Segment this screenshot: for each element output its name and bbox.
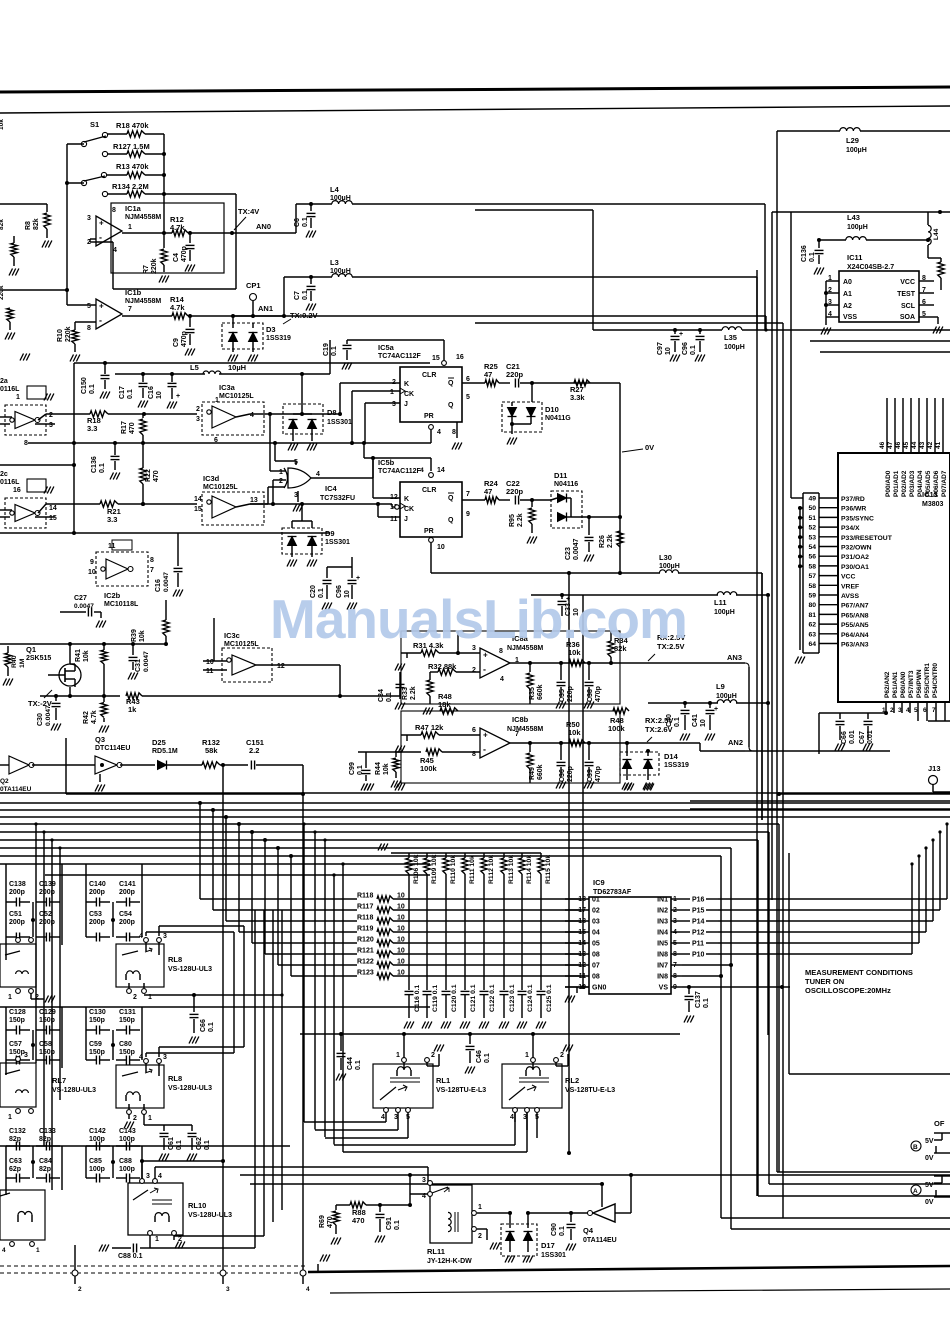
svg-text:P31/OA2: P31/OA2 [841, 554, 869, 561]
svg-text:MC10118L: MC10118L [104, 601, 139, 608]
svg-text:0V: 0V [645, 443, 654, 452]
svg-text:52: 52 [808, 525, 816, 532]
svg-text:TC7S32FU: TC7S32FU [320, 495, 355, 502]
svg-text:C88: C88 [119, 1158, 132, 1165]
svg-text:03: 03 [592, 919, 600, 926]
svg-text:C46: C46 [476, 1050, 483, 1063]
svg-text:+: + [356, 575, 360, 582]
svg-text:K: K [404, 381, 409, 388]
relay RL11 [430, 1185, 472, 1243]
svg-text:470: 470 [352, 1216, 365, 1225]
svg-text:1: 1 [36, 1247, 40, 1254]
svg-text:VS-128TU-E-L3: VS-128TU-E-L3 [565, 1087, 615, 1094]
svg-text:150p: 150p [9, 1049, 25, 1056]
svg-text:C119 0.1: C119 0.1 [432, 985, 439, 1012]
svg-text:150p: 150p [39, 1017, 55, 1024]
wire AN0 right down [764, 204, 766, 330]
svg-text:B: B [913, 1144, 918, 1151]
svg-text:10: 10 [665, 347, 672, 355]
svg-text:80: 80 [808, 602, 816, 609]
diode pair D14 [620, 752, 659, 775]
svg-text:C136: C136 [801, 245, 808, 262]
svg-text:200p: 200p [9, 919, 25, 926]
vertical bus right [776, 131, 778, 1172]
svg-text:IC5b: IC5b [378, 458, 395, 467]
svg-text:0.01: 0.01 [849, 730, 856, 744]
svg-text:0.1: 0.1 [127, 389, 134, 399]
wire AN2 right [753, 750, 890, 752]
svg-text:1SS301: 1SS301 [541, 1252, 566, 1259]
svg-text:C129: C129 [39, 1009, 56, 1016]
svg-text:C67: C67 [859, 731, 866, 744]
svg-text:C96: C96 [682, 342, 689, 355]
svg-text:L29: L29 [846, 136, 859, 145]
svg-text:7: 7 [466, 491, 470, 498]
svg-text:RL8: RL8 [168, 955, 182, 964]
svg-text:GN0: GN0 [592, 985, 607, 992]
svg-text:470: 470 [129, 422, 136, 434]
svg-text:0.1: 0.1 [331, 346, 338, 356]
wire AN1 right [233, 315, 766, 317]
svg-text:L30: L30 [659, 553, 672, 562]
wire IC8a out [510, 662, 620, 664]
svg-text:100µH: 100µH [714, 609, 735, 616]
transistor Q4 [593, 1204, 615, 1222]
svg-text:57: 57 [808, 573, 816, 580]
svg-text:0.1: 0.1 [386, 692, 393, 702]
svg-text:0.1: 0.1 [355, 1060, 362, 1070]
wire IC5b CK [391, 504, 393, 507]
svg-text:R111 10k: R111 10k [469, 855, 476, 884]
svg-text:4: 4 [250, 412, 254, 419]
svg-text:3.3: 3.3 [107, 515, 117, 524]
svg-text:1: 1 [155, 1236, 159, 1243]
svg-text:R17: R17 [121, 421, 128, 434]
wire IC5a K [340, 382, 400, 384]
svg-text:P57/INT3: P57/INT3 [908, 670, 915, 698]
svg-text:VS-128U-UL3: VS-128U-UL3 [168, 1085, 212, 1092]
svg-text:7: 7 [150, 567, 154, 574]
svg-text:P37/RD: P37/RD [841, 496, 865, 503]
diode pair D8 [283, 404, 323, 434]
svg-text:P65/AN8: P65/AN8 [841, 612, 869, 619]
or-gate IC4 [288, 468, 311, 488]
svg-text:1: 1 [8, 1114, 12, 1121]
svg-text:IC3a: IC3a [219, 383, 236, 392]
svg-text:04: 04 [592, 930, 600, 937]
svg-text:R13 470k: R13 470k [116, 162, 149, 171]
svg-text:D17: D17 [541, 1241, 555, 1250]
svg-text:C23: C23 [565, 547, 572, 560]
svg-text:AVSS: AVSS [841, 593, 859, 600]
svg-text:OF: OF [934, 1119, 945, 1128]
svg-text:C138: C138 [9, 881, 26, 888]
resistor R right [938, 262, 944, 278]
svg-text:P32/OWN: P32/OWN [841, 545, 872, 552]
svg-text:P03/AD3: P03/AD3 [909, 470, 916, 497]
wire IC1a minus [90, 238, 96, 240]
svg-text:C120 0.1: C120 0.1 [451, 984, 458, 1012]
wire D17 right [528, 1212, 571, 1214]
wire q4 junction [567, 1151, 571, 1155]
svg-text:S1: S1 [90, 120, 99, 129]
svg-text:C27: C27 [74, 595, 87, 602]
svg-text:82k: 82k [33, 218, 40, 230]
svg-text:J: J [404, 401, 408, 408]
svg-text:DTC114EU: DTC114EU [95, 745, 130, 752]
svg-text:L4: L4 [330, 185, 340, 194]
svg-text:1: 1 [525, 1052, 529, 1059]
diode pair D3 [222, 323, 263, 349]
svg-text:660k: 660k [537, 684, 544, 700]
capacitor C46 [469, 1034, 471, 1044]
capacitor C66b [193, 995, 195, 1012]
vertical x583 [531, 594, 583, 596]
svg-text:11: 11 [206, 668, 214, 675]
svg-text:200p: 200p [9, 889, 25, 896]
svg-text:0.1: 0.1 [394, 1220, 401, 1230]
svg-text:AN2: AN2 [728, 738, 743, 747]
svg-text:2: 2 [35, 994, 39, 1001]
svg-text:C6: C6 [294, 218, 301, 227]
svg-text:2: 2 [478, 1233, 482, 1240]
svg-text:A2: A2 [843, 303, 852, 310]
svg-text:VCC: VCC [841, 574, 855, 581]
svg-text:49: 49 [808, 496, 816, 503]
svg-text:8: 8 [112, 207, 116, 214]
svg-text:NJM4558M: NJM4558M [125, 214, 161, 221]
frame D [768, 832, 770, 1184]
wire IC2a out [38, 414, 46, 420]
svg-text:2: 2 [472, 667, 476, 674]
svg-text:J: J [404, 516, 408, 523]
svg-text:220p: 220p [506, 370, 524, 379]
wire IC1b out [122, 315, 172, 317]
resistors R106-R115 [391, 852, 541, 854]
svg-text:0.0047: 0.0047 [163, 572, 170, 592]
svg-text:64: 64 [808, 641, 816, 648]
svg-text:1: 1 [16, 394, 20, 401]
svg-text:Q: Q [448, 517, 454, 524]
wire RL11 p3 [427, 1167, 429, 1183]
svg-text:5: 5 [914, 707, 918, 714]
svg-text:82k: 82k [0, 219, 5, 230]
svg-text:0V: 0V [925, 1155, 934, 1162]
svg-text:VSS: VSS [843, 314, 857, 321]
svg-text:IN3: IN3 [657, 919, 668, 926]
svg-text:1: 1 [148, 1115, 152, 1122]
svg-text:-: - [483, 665, 486, 675]
svg-text:2: 2 [49, 412, 53, 419]
bus lines [0, 802, 950, 804]
svg-text:8: 8 [24, 440, 28, 447]
svg-text:05: 05 [592, 941, 600, 948]
svg-text:01: 01 [592, 897, 600, 904]
svg-text:0.1: 0.1 [89, 384, 96, 394]
svg-text:P55/AN5: P55/AN5 [841, 622, 869, 629]
capacitors C116-C125 [405, 990, 414, 992]
bottom terminals [72, 1270, 78, 1276]
svg-text:A: A [913, 1188, 918, 1195]
svg-text:VREF: VREF [841, 583, 859, 590]
svg-text:+: + [99, 302, 104, 311]
svg-text:81: 81 [808, 612, 816, 619]
svg-text:0.1: 0.1 [208, 1022, 215, 1032]
wire L30 right [761, 573, 763, 820]
relay RL2 [502, 1064, 562, 1108]
svg-text:AN0: AN0 [256, 222, 271, 231]
svg-text:C51: C51 [9, 911, 22, 918]
svg-text:1: 1 [215, 397, 219, 404]
svg-text:9: 9 [466, 511, 470, 518]
wire IC1b minus [75, 321, 96, 323]
svg-text:2: 2 [196, 406, 200, 413]
svg-text:P55/CNTR1: P55/CNTR1 [924, 663, 931, 698]
resistor R18b [90, 411, 108, 417]
svg-text:D3: D3 [266, 325, 276, 334]
bottom dashed lines [0, 1265, 308, 1267]
svg-text:0TA114EU: 0TA114EU [0, 786, 32, 793]
rail L30 [431, 572, 660, 574]
svg-text:470p: 470p [181, 246, 188, 262]
svg-text:3: 3 [146, 1173, 150, 1180]
svg-text:3: 3 [422, 1177, 426, 1184]
wire 1184 [250, 1183, 602, 1185]
svg-text:50: 50 [808, 505, 816, 512]
wire AN1 to L3 [283, 277, 285, 316]
svg-text:C131: C131 [119, 1009, 136, 1016]
svg-text:4: 4 [500, 676, 504, 683]
svg-text:C99: C99 [349, 762, 356, 775]
svg-text:4: 4 [510, 1114, 514, 1121]
svg-text:D8: D8 [327, 408, 337, 417]
svg-text:1SS319: 1SS319 [664, 762, 689, 769]
svg-text:C58: C58 [39, 1041, 52, 1048]
svg-text:0116L: 0116L [0, 479, 20, 486]
svg-text:C17: C17 [119, 386, 126, 399]
staircase verticals a [146, 931, 234, 933]
wire AN3 bend [745, 663, 749, 667]
bottom thick line [308, 1266, 950, 1272]
bottom thin line [330, 1289, 950, 1293]
relay RL8b [116, 1065, 164, 1108]
svg-text:2.2k: 2.2k [607, 534, 614, 548]
svg-text:D25: D25 [152, 738, 166, 747]
svg-text:7: 7 [515, 731, 519, 738]
svg-text:54: 54 [808, 544, 816, 551]
diode pair D9 [282, 528, 322, 554]
svg-text:6: 6 [923, 707, 927, 714]
relay RL1 [373, 1064, 433, 1108]
wire Q1 source row [40, 695, 120, 697]
svg-text:K: K [404, 496, 409, 503]
svg-text:R41: R41 [75, 649, 82, 662]
svg-text:4.7k: 4.7k [91, 710, 98, 724]
svg-text:CP1: CP1 [246, 281, 261, 290]
row1 join wires [158, 926, 160, 936]
wires AN1 bend [765, 316, 767, 330]
svg-text:7: 7 [932, 707, 936, 714]
svg-text:10k: 10k [568, 728, 581, 737]
svg-text:150p: 150p [89, 1049, 105, 1056]
svg-text:IN8: IN8 [657, 974, 668, 981]
svg-text:R118: R118 [357, 893, 373, 900]
wire AN0 up [295, 204, 297, 233]
svg-text:A0: A0 [843, 279, 852, 286]
svg-text:VS-128U-UL3: VS-128U-UL3 [52, 1087, 96, 1094]
rail Q1 [0, 643, 166, 645]
svg-text:10µH: 10µH [228, 363, 246, 372]
svg-text:IN5: IN5 [657, 941, 668, 948]
svg-text:10k: 10k [0, 119, 5, 130]
svg-text:C121 0.1: C121 0.1 [470, 984, 477, 1012]
svg-text:C66: C66 [841, 731, 848, 744]
resistor R21 [100, 501, 118, 507]
frame C [757, 840, 759, 1196]
capacitor C44 [340, 1034, 342, 1051]
svg-text:C143: C143 [119, 1128, 136, 1135]
svg-text:NJM4558M: NJM4558M [507, 726, 543, 733]
staircase verticals b [303, 824, 305, 1122]
frame A [720, 856, 722, 1218]
svg-text:Q: Q [448, 495, 454, 502]
caps C61 C62 [143, 1114, 145, 1125]
IC9 output wires [718, 898, 947, 900]
svg-text:0TA114EU: 0TA114EU [583, 1237, 617, 1244]
svg-text:16: 16 [456, 354, 464, 361]
svg-text:CLR: CLR [422, 372, 436, 379]
svg-text:15: 15 [194, 506, 202, 513]
staircase to RL pins [304, 1121, 386, 1123]
svg-text:P30/OA1: P30/OA1 [841, 564, 869, 571]
svg-text:15: 15 [49, 515, 57, 522]
svg-text:51: 51 [808, 515, 816, 522]
svg-text:R44: R44 [375, 762, 382, 775]
svg-text:3: 3 [163, 1054, 167, 1061]
cap bank row3 vwires [5, 1146, 7, 1178]
svg-text:2.2: 2.2 [249, 746, 259, 755]
wire IC3d out [250, 503, 268, 505]
wire nested right [810, 340, 950, 342]
svg-text:4: 4 [158, 1173, 162, 1180]
svg-text:220p: 220p [567, 766, 574, 782]
wire AN1 right down [756, 277, 758, 330]
bus branches [199, 803, 201, 899]
svg-text:7: 7 [128, 306, 132, 313]
svg-text:X24C04SB-2.7: X24C04SB-2.7 [847, 264, 894, 271]
svg-text:14: 14 [437, 467, 445, 474]
svg-text:14: 14 [194, 496, 202, 503]
svg-text:C150: C150 [81, 377, 88, 394]
svg-text:Q3: Q3 [95, 735, 105, 744]
svg-text:C141: C141 [119, 881, 136, 888]
svg-text:59: 59 [808, 593, 816, 600]
svg-text:P56/PWN: P56/PWN [916, 669, 923, 698]
svg-text:150p: 150p [89, 1017, 105, 1024]
svg-text:2: 2 [133, 1115, 137, 1122]
svg-text:+: + [176, 393, 180, 400]
svg-text:10k: 10k [383, 763, 390, 775]
svg-text:2: 2 [279, 478, 283, 485]
svg-text:VS: VS [659, 985, 669, 992]
svg-text:R10: R10 [57, 329, 64, 342]
svg-text:MC10125L: MC10125L [203, 484, 238, 491]
svg-text:L11: L11 [714, 598, 727, 607]
svg-text:9: 9 [90, 559, 94, 566]
row2 join wires [158, 1047, 160, 1057]
cap bank row2 vwires [5, 1030, 7, 1060]
resistor R88 [336, 1204, 350, 1206]
svg-text:R109 10k: R109 10k [431, 854, 438, 884]
RL10 wires [142, 1160, 223, 1162]
svg-text:CK: CK [404, 391, 414, 398]
svg-text:45: 45 [903, 441, 910, 449]
svg-text:5: 5 [466, 394, 470, 401]
svg-text:RD5.1M: RD5.1M [152, 748, 178, 755]
svg-text:AN1: AN1 [258, 304, 273, 313]
svg-text:3: 3 [392, 401, 396, 408]
svg-text:C97: C97 [657, 342, 664, 355]
svg-text:P63/AN3: P63/AN3 [841, 642, 869, 649]
svg-text:R114 10k: R114 10k [526, 855, 533, 884]
svg-text:4: 4 [139, 933, 143, 940]
svg-text:100µH: 100µH [846, 147, 867, 154]
svg-text:TX:4V: TX:4V [238, 207, 259, 216]
box IC8a [401, 631, 620, 704]
svg-text:OSCILLOSCOPE:20MHz: OSCILLOSCOPE:20MHz [805, 986, 891, 995]
wire IC1a out [122, 232, 172, 234]
wire IC5a CK [352, 390, 400, 392]
svg-text:IN7: IN7 [657, 963, 668, 970]
svg-text:8: 8 [150, 557, 154, 564]
wire switch common [67, 143, 84, 145]
svg-text:P54/CNTR0: P54/CNTR0 [932, 663, 939, 698]
svg-text:IN4: IN4 [657, 930, 668, 937]
svg-text:62: 62 [808, 622, 816, 629]
svg-text:IC2b: IC2b [104, 591, 121, 600]
svg-text:C125 0.1: C125 0.1 [546, 984, 553, 1012]
svg-text:4: 4 [906, 707, 910, 714]
svg-text:P15: P15 [692, 908, 705, 915]
svg-text:R26: R26 [599, 535, 606, 548]
svg-text:100µH: 100µH [724, 344, 745, 351]
diode pair D17 [501, 1224, 537, 1256]
IC13 top pins [886, 398, 888, 453]
svg-text:2: 2 [78, 1286, 82, 1293]
svg-text:3: 3 [226, 1286, 230, 1293]
svg-text:L44: L44 [933, 228, 940, 240]
svg-text:C63: C63 [9, 1158, 22, 1165]
svg-text:SOA: SOA [900, 314, 915, 321]
svg-text:-: - [99, 233, 102, 243]
svg-text:L9: L9 [716, 682, 725, 691]
svg-text:10k: 10k [83, 650, 90, 662]
svg-text:2: 2 [133, 994, 137, 1001]
svg-text:46: 46 [895, 441, 902, 449]
svg-text:1: 1 [8, 994, 12, 1001]
svg-text:100µH: 100µH [659, 563, 680, 570]
vertical rail left [73, 363, 75, 533]
svg-text:3.3: 3.3 [87, 424, 97, 433]
IC13 left pin wires [791, 497, 803, 499]
svg-text:C16: C16 [155, 579, 162, 592]
wire RL11 p4 [410, 1193, 430, 1195]
svg-text:150p: 150p [119, 1049, 135, 1056]
svg-text:+: + [714, 706, 718, 713]
svg-text:1: 1 [390, 389, 394, 396]
svg-text:C90: C90 [551, 1223, 558, 1236]
svg-text:Q: Q [448, 402, 454, 409]
